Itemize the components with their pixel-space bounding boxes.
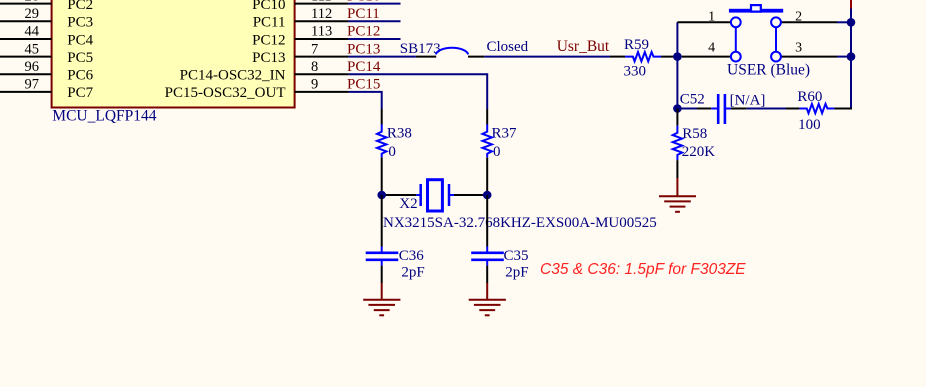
junction node button pin3 xyxy=(847,52,856,61)
capacitor C52 lead right xyxy=(726,108,731,110)
svg-text:MCU_LQFP144: MCU_LQFP144 xyxy=(52,108,156,125)
wire R58 to ground xyxy=(676,160,678,178)
wire pin PC2 left xyxy=(0,3,52,5)
capacitor C36 plate top xyxy=(366,252,399,255)
wire crystal right xyxy=(454,194,487,196)
crystal X2 body xyxy=(428,180,443,211)
wire pin PC5 left xyxy=(0,56,52,58)
svg-text:USER (Blue): USER (Blue) xyxy=(727,62,810,79)
button B1 contact pin 4 xyxy=(731,52,741,62)
wire pin PC6 left xyxy=(0,73,52,75)
wire to R37 top xyxy=(486,109,488,125)
svg-text:X2: X2 xyxy=(399,196,417,212)
wire net PC11 xyxy=(348,20,400,22)
wire pin PC11 right xyxy=(295,20,349,22)
ground GND C35 xyxy=(469,283,506,315)
svg-text:97: 97 xyxy=(25,77,40,93)
resistor R60 zigzag xyxy=(799,104,834,113)
svg-text:PC10: PC10 xyxy=(347,0,380,5)
wire pin PC13 right xyxy=(295,56,349,58)
svg-text:7: 7 xyxy=(311,41,318,57)
wire net PC10 xyxy=(348,3,400,5)
junction node button pin2 xyxy=(847,18,856,27)
svg-text:PC15-OSC32_OUT: PC15-OSC32_OUT xyxy=(165,85,286,101)
wire crystal to C35 xyxy=(486,195,488,247)
crystal X2 lead left xyxy=(382,194,417,196)
svg-text:PC7: PC7 xyxy=(67,85,93,101)
svg-text:PC3: PC3 xyxy=(67,15,93,31)
resistor R58 zigzag xyxy=(673,126,682,161)
wire pin PC14 right xyxy=(295,73,349,75)
resistor R37 zigzag xyxy=(483,124,492,157)
svg-text:PC13: PC13 xyxy=(347,41,380,57)
wire Usr_But to R59 xyxy=(610,56,625,58)
wire R59 to node xyxy=(661,56,677,58)
capacitor C52 plate right xyxy=(724,94,727,124)
wire net button pin3 to vertical xyxy=(837,56,851,58)
wire left vertical button column xyxy=(676,22,678,108)
svg-text:R38: R38 xyxy=(387,126,412,142)
button B1 contact pin 2 xyxy=(771,17,781,27)
wire pin PC12 right xyxy=(295,38,349,40)
crystal X2 lead right xyxy=(450,194,454,196)
svg-text:28: 28 xyxy=(25,0,40,5)
wire C52 to R60 xyxy=(747,108,786,110)
svg-text:330: 330 xyxy=(624,63,647,79)
junction node C52/R58 xyxy=(673,104,682,113)
svg-text:96: 96 xyxy=(25,59,40,75)
wire button pin1 left xyxy=(677,21,731,23)
ground GND C36 xyxy=(363,283,400,315)
svg-text:C35: C35 xyxy=(504,248,529,264)
svg-text:C36: C36 xyxy=(399,248,425,264)
capacitor C52 stub left xyxy=(711,108,717,110)
capacitor C35 stub top xyxy=(486,247,488,252)
svg-text:PC15: PC15 xyxy=(347,77,380,93)
svg-text:Closed: Closed xyxy=(487,39,529,55)
wire R37 to crystal node xyxy=(486,158,488,196)
crystal X2 plate left xyxy=(419,184,422,206)
svg-text:PC5: PC5 xyxy=(67,50,93,66)
svg-text:PC11: PC11 xyxy=(253,15,286,31)
button B1 contact pin 3 xyxy=(771,52,781,62)
MCU U1 body MCU_LQFP144 xyxy=(52,0,295,108)
solder bridge SB173 arc xyxy=(436,48,468,55)
wire C52 right xyxy=(731,108,747,110)
svg-text:[N/A]: [N/A] xyxy=(730,93,766,109)
svg-text:PC14-OSC32_IN: PC14-OSC32_IN xyxy=(180,68,286,84)
button B1 pole right xyxy=(775,27,777,52)
svg-text:PC11: PC11 xyxy=(347,6,380,22)
wire pin PC7 left xyxy=(0,91,52,93)
wire pin PC3 left xyxy=(0,20,52,22)
wire C35 to ground xyxy=(486,261,488,266)
wire net Usr_But xyxy=(484,56,610,58)
capacitor C36 stub top xyxy=(381,247,383,252)
wire button pin3 right xyxy=(781,56,837,58)
svg-text:9: 9 xyxy=(311,77,318,93)
wire crystal to C36 xyxy=(381,195,383,247)
crystal X2 stub left xyxy=(416,194,420,196)
svg-text:220K: 220K xyxy=(682,144,716,160)
svg-text:R58: R58 xyxy=(682,126,707,142)
wire net PC15 to R38 xyxy=(349,92,382,109)
solder bridge SB173 pin left xyxy=(416,56,436,58)
junction node crystal right xyxy=(483,191,492,200)
svg-text:PC12: PC12 xyxy=(252,32,285,48)
wire net PC14 to R37 xyxy=(349,74,488,109)
solder bridge SB173 pin right xyxy=(468,56,484,58)
capacitor C35 plate bottom xyxy=(471,258,504,261)
svg-text:2pF: 2pF xyxy=(401,264,424,280)
junction node R59/button pin4 xyxy=(673,52,682,61)
svg-text:R37: R37 xyxy=(492,126,518,142)
svg-text:0: 0 xyxy=(493,144,501,160)
power stub red top right xyxy=(850,0,852,10)
junction node crystal left xyxy=(377,191,386,200)
svg-text:PC6: PC6 xyxy=(67,68,93,84)
wire to R38 top xyxy=(381,109,383,125)
svg-text:8: 8 xyxy=(311,59,318,75)
ground GND R58 xyxy=(659,178,696,212)
wire R60 to right vertical xyxy=(834,108,852,110)
svg-text:112: 112 xyxy=(311,6,332,22)
capacitor C52 lead left xyxy=(697,108,711,110)
svg-text:Usr_But: Usr_But xyxy=(557,38,610,55)
wire C36 bottom xyxy=(381,266,383,283)
svg-text:1: 1 xyxy=(708,9,715,24)
wire button pin2 right xyxy=(781,21,837,23)
svg-text:C35 & C36: 1.5pF for F303ZE: C35 & C36: 1.5pF for F303ZE xyxy=(540,261,746,278)
wire net PC12 xyxy=(348,38,400,40)
svg-text:111: 111 xyxy=(311,0,332,5)
button B1 pole left xyxy=(735,27,737,52)
capacitor C52 plate left xyxy=(717,94,720,124)
svg-text:PC4: PC4 xyxy=(67,32,93,48)
wire pin PC10 right xyxy=(295,3,349,5)
wire pin PC4 left xyxy=(0,38,52,40)
wire net PC13 xyxy=(349,56,416,58)
svg-text:45: 45 xyxy=(25,41,40,57)
svg-text:PC14: PC14 xyxy=(347,59,381,75)
svg-text:PC10: PC10 xyxy=(252,0,285,13)
capacitor C36 plate bottom xyxy=(366,258,399,261)
resistor R38 zigzag xyxy=(377,124,386,157)
svg-text:PC13: PC13 xyxy=(252,50,285,66)
button B1 actuator bar xyxy=(729,9,783,13)
svg-text:0: 0 xyxy=(388,144,396,160)
svg-text:PC2: PC2 xyxy=(67,0,93,13)
wire right vertical button column xyxy=(850,9,852,109)
resistor R59 zigzag xyxy=(625,52,661,61)
svg-text:44: 44 xyxy=(25,24,40,40)
svg-text:29: 29 xyxy=(25,6,40,22)
crystal X2 plate right xyxy=(448,184,451,206)
wire net button pin2 to vertical xyxy=(837,21,851,23)
svg-text:2pF: 2pF xyxy=(505,264,528,280)
wire R38 to crystal node xyxy=(381,158,383,196)
svg-text:3: 3 xyxy=(795,41,802,56)
wire node to R58 xyxy=(676,109,678,126)
button B1 contact pin 1 xyxy=(731,17,741,27)
svg-text:4: 4 xyxy=(708,41,715,56)
svg-text:PC12: PC12 xyxy=(347,24,380,40)
svg-text:C52: C52 xyxy=(680,92,705,108)
wire C36 to ground xyxy=(381,261,383,266)
svg-text:100: 100 xyxy=(798,117,821,133)
capacitor C35 plate top xyxy=(471,252,504,255)
svg-text:NX3215SA-32.768KHZ-EXS00A-MU00: NX3215SA-32.768KHZ-EXS00A-MU00525 xyxy=(383,215,657,231)
wire C35 bottom xyxy=(486,266,488,283)
wire to R60 xyxy=(786,108,799,110)
svg-text:SB173: SB173 xyxy=(400,41,441,57)
button B1 actuator bump xyxy=(751,5,761,12)
wire pin PC15 right xyxy=(295,91,349,93)
svg-text:2: 2 xyxy=(795,9,802,24)
wire node to C52 xyxy=(677,108,697,110)
svg-text:113: 113 xyxy=(311,24,332,40)
wire button pin4 left xyxy=(682,56,731,58)
